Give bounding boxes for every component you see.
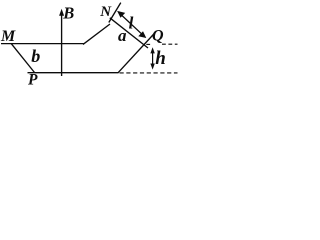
wire near incline rail up to node Q [118, 34, 154, 73]
dashed level line at Q [146, 43, 177, 45]
wire bottom rail from P [28, 72, 119, 74]
svg-text:a: a [118, 26, 127, 45]
wire far incline rail steep part to node N [109, 3, 121, 23]
wire top rail from M [1, 43, 84, 45]
svg-text:l: l [129, 14, 134, 33]
svg-text:N: N [99, 4, 112, 20]
dimension arrow l along incline [117, 11, 146, 38]
dashed ground line [120, 72, 178, 74]
wire incline top edge from N to Q [110, 18, 148, 48]
wire left edge b (M to P) [11, 43, 35, 72]
svg-text:B: B [62, 3, 74, 22]
svg-text:M: M [0, 28, 16, 45]
dimension arrow h (height of Q above ground) [150, 47, 154, 69]
svg-text:P: P [28, 72, 38, 89]
svg-text:b: b [31, 46, 40, 66]
wire far incline rail lower part [83, 24, 110, 44]
svg-text:Q: Q [152, 28, 164, 45]
svg-text:h: h [155, 48, 166, 69]
field arrow B [59, 9, 64, 76]
